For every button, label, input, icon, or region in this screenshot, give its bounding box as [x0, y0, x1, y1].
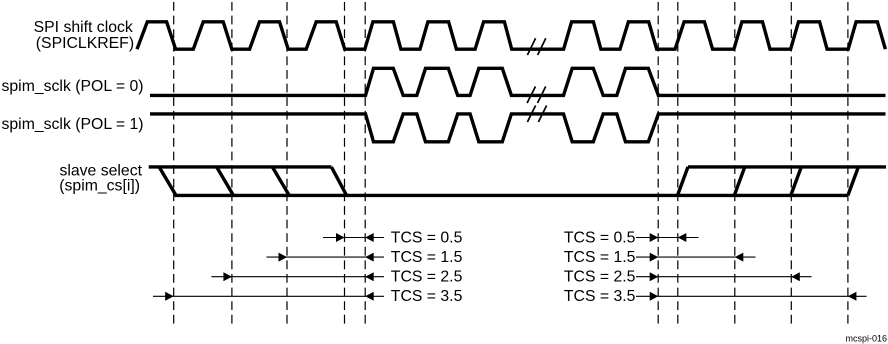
time-break symbol on spim_sclk POL=1 — [527, 106, 546, 123]
dashed timing reference line at TCS=2.5 rise (right) — [790, 2, 792, 326]
svg-text:TCS = 1.5: TCS = 1.5 — [391, 249, 463, 266]
svg-text:(spim_cs[i]): (spim_cs[i]) — [59, 178, 140, 195]
left TCS dimension arrowheads — [165, 233, 374, 301]
right TCS dimension line row 1 (TCS = 0.5) — [636, 237, 699, 239]
slave select high level, right — [688, 165, 886, 168]
svg-text:TCS = 0.5: TCS = 0.5 — [564, 229, 636, 246]
slave select (spim_cs[i]) high level, left — [149, 165, 332, 168]
right TCS dimension line row 2 (TCS = 1.5) — [636, 256, 756, 258]
dashed timing reference line at TCS=0.5 rise (right) — [677, 2, 679, 326]
left TCS dimension line row 2 (TCS = 1.5) — [267, 256, 385, 258]
spim_sclk (POL = 1) waveform — [150, 114, 886, 142]
dashed timing reference line at TCS=3.5 fall (left) — [173, 2, 175, 326]
time-break symbol on SPICLKREF — [527, 38, 545, 55]
svg-text:spim_sclk (POL = 0): spim_sclk (POL = 0) — [2, 78, 144, 95]
slave select falling-edge hatch, left — [159, 167, 347, 196]
right TCS dimension line row 4 (TCS = 3.5) — [636, 295, 867, 297]
svg-text:mcspi-016: mcspi-016 — [845, 334, 887, 344]
time-break symbol on spim_sclk POL=0 — [527, 87, 546, 104]
right TCS dimension line row 3 (TCS = 2.5) — [636, 276, 812, 278]
dashed timing reference line at TCS=0.5 fall (left) — [344, 2, 346, 326]
svg-text:SPI shift clock: SPI shift clock — [34, 19, 133, 36]
dashed timing reference line at TCS=3.5 rise (right) — [847, 2, 849, 326]
svg-text:TCS = 1.5: TCS = 1.5 — [564, 249, 636, 266]
svg-text:TCS = 3.5: TCS = 3.5 — [564, 288, 636, 305]
svg-text:spim_sclk (POL = 1): spim_sclk (POL = 1) — [2, 116, 144, 133]
svg-text:TCS = 2.5: TCS = 2.5 — [391, 269, 463, 286]
svg-text:(SPICLKREF): (SPICLKREF) — [36, 35, 134, 52]
right TCS dimension arrowheads — [650, 233, 857, 301]
spim_sclk (POL = 0) waveform — [150, 68, 886, 95]
svg-text:TCS = 3.5: TCS = 3.5 — [391, 288, 463, 305]
svg-text:TCS = 2.5: TCS = 2.5 — [564, 269, 636, 286]
left TCS dimension line row 3 (TCS = 2.5) — [211, 276, 384, 278]
dashed timing reference line at TCS=2.5 fall (left) — [231, 2, 233, 326]
dashed timing reference line at TCS=1.5 fall (left) — [286, 2, 288, 326]
dashed timing reference line at last sclk edge (right) — [657, 2, 659, 326]
left TCS dimension line row 1 (TCS = 0.5) — [323, 237, 384, 239]
slave select low level — [175, 194, 848, 197]
dashed timing reference line at first sclk edge (left) — [364, 2, 366, 326]
slave select rising-edge hatch, right — [678, 167, 859, 196]
dashed timing reference line at TCS=1.5 rise (right) — [734, 2, 736, 326]
svg-text:TCS = 0.5: TCS = 0.5 — [391, 229, 463, 246]
left TCS dimension line row 4 (TCS = 3.5) — [153, 295, 384, 297]
SPI shift clock (SPICLKREF) waveform — [137, 22, 885, 49]
